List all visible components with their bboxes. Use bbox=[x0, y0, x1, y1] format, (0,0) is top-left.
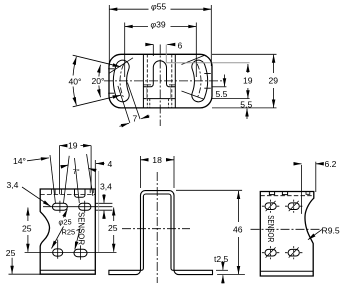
svg-text:SENSOR: SENSOR bbox=[266, 215, 276, 242]
7 dimension arrows bbox=[120, 123, 129, 126]
dia55 extension lines bbox=[109, 5, 211, 66]
7 deg right arrow bbox=[88, 168, 95, 170]
hat horizontal centerline bbox=[122, 228, 190, 230]
svg-text:14°: 14° bbox=[13, 156, 26, 166]
top step notch bbox=[90, 189, 93, 193]
top bend dashed line bbox=[40, 194, 95, 196]
3,4 right arrows bbox=[103, 194, 105, 203]
slant line L1 bbox=[50, 155, 55, 203]
svg-text:φ25: φ25 bbox=[59, 218, 72, 227]
svg-text:25: 25 bbox=[22, 224, 32, 234]
RV hole vertical dashed ticks bbox=[271, 200, 294, 260]
left slot top tick bbox=[109, 58, 133, 74]
4 dimension arrow bbox=[96, 163, 105, 165]
lower-right slot hole bbox=[74, 249, 87, 256]
lower-left hole bbox=[53, 249, 63, 256]
svg-text:20°: 20° bbox=[92, 76, 105, 86]
hat profile bbox=[109, 191, 213, 275]
phi25 leader down bbox=[52, 227, 64, 249]
cap top extension right bbox=[176, 189, 242, 191]
right arc slot bbox=[198, 67, 201, 95]
right top notch 1 bbox=[269, 192, 274, 195]
gray sensor vertical edge bbox=[165, 45, 167, 63]
RV lower-left hole bbox=[265, 249, 276, 256]
svg-text:SENSOR: SENSOR bbox=[77, 212, 87, 245]
slant line L2 bbox=[64, 156, 70, 203]
6 dimension bbox=[146, 45, 154, 57]
upper-right slot hole bbox=[79, 203, 91, 210]
svg-text:46: 46 bbox=[233, 225, 243, 235]
right plate outline bbox=[260, 192, 314, 277]
RV hole side ticks bbox=[262, 206, 303, 253]
right slot top tick bbox=[182, 56, 205, 65]
svg-text:18: 18 bbox=[152, 155, 162, 165]
sensor step line right bbox=[212, 86, 226, 88]
RV upper-left hole bbox=[265, 203, 276, 210]
foot bottom extension right bbox=[217, 274, 245, 276]
19 extension lines bbox=[59, 146, 91, 189]
top edge extension right bbox=[212, 53, 277, 55]
centre channel left hidden line bbox=[146, 54, 148, 98]
right plate top dashed bend line bbox=[260, 195, 312, 197]
hidden dashes below channel bbox=[147, 99, 172, 108]
dia39 extension lines bbox=[125, 23, 197, 78]
RV upper-right hole bbox=[288, 203, 299, 210]
svg-text:4: 4 bbox=[108, 159, 113, 169]
46 dimension line bbox=[238, 191, 240, 274]
18 dimension line bbox=[141, 159, 175, 161]
upper holes vertical ticks bbox=[60, 201, 85, 213]
svg-text:R9.5: R9.5 bbox=[322, 225, 340, 235]
centre channel left outer line bbox=[142, 54, 144, 108]
right top notch 2 bbox=[282, 192, 287, 195]
25 dim left outer bbox=[11, 258, 13, 274]
centre channel right outer line bbox=[174, 54, 176, 108]
top U notch bbox=[75, 189, 86, 197]
svg-text:19: 19 bbox=[68, 141, 78, 151]
RV hole diagonal ticks bbox=[266, 201, 299, 258]
svg-text:3,4: 3,4 bbox=[7, 180, 19, 190]
centre U tab bbox=[143, 61, 175, 87]
right top notch 3 bbox=[306, 192, 310, 195]
lower holes centerline bbox=[25, 251, 117, 253]
20 deg upper ray bbox=[73, 55, 121, 67]
svg-text:5.5: 5.5 bbox=[216, 89, 228, 99]
phi25 leader up bbox=[64, 209, 68, 217]
gray sensor hidden sides bbox=[147, 87, 171, 99]
25 dim left inner bbox=[27, 208, 29, 252]
right slot bottom tick bbox=[182, 91, 205, 99]
20 deg dimension arcs bbox=[99, 65, 101, 77]
bottom edge extension left bbox=[9, 273, 41, 275]
gray sensor flange line bbox=[166, 62, 249, 64]
14 deg leader bbox=[27, 158, 49, 161]
R25 leader bbox=[75, 229, 80, 250]
6.2 extension line A bbox=[301, 165, 303, 214]
svg-text:7: 7 bbox=[133, 114, 138, 124]
hat vertical centerline bbox=[156, 172, 158, 283]
slant line L4 bbox=[87, 154, 93, 196]
RV horizontal centerline bbox=[251, 228, 323, 230]
29 dimension line bbox=[273, 55, 275, 108]
upper-left slot hole bbox=[52, 203, 67, 210]
t2.5 upper arrow bbox=[222, 263, 224, 270]
t2.5 lower arrow bbox=[222, 275, 224, 283]
bottom edge extension right bbox=[212, 107, 277, 109]
R9.5 leader bbox=[308, 230, 322, 240]
centre channel right hidden line bbox=[171, 54, 173, 98]
upper hole edge extensions right bbox=[95, 203, 112, 210]
svg-text:29: 29 bbox=[269, 76, 279, 86]
step line 2 right bbox=[212, 98, 250, 100]
5.5 lower arrow bbox=[246, 109, 248, 120]
centre channel inner line bbox=[143, 98, 175, 100]
25 dim right bbox=[113, 208, 115, 252]
lower holes vertical ticks bbox=[58, 240, 81, 260]
bracket body top view bbox=[109, 54, 212, 108]
ray cross ticks bbox=[108, 69, 114, 93]
18 extension lines bbox=[141, 156, 175, 188]
svg-text:t2.5: t2.5 bbox=[214, 254, 229, 264]
foot top extension bbox=[216, 269, 228, 271]
20 deg lower ray bbox=[73, 95, 121, 107]
right slot dash-dot centre arc bbox=[197, 64, 201, 98]
svg-text:3,4: 3,4 bbox=[100, 182, 112, 192]
upper holes centerline bbox=[43, 206, 112, 208]
svg-text:19: 19 bbox=[243, 76, 253, 86]
7 deg left arrow bbox=[62, 165, 69, 167]
left arc slot bbox=[120, 67, 123, 95]
svg-text:25: 25 bbox=[108, 223, 118, 233]
svg-text:6: 6 bbox=[178, 40, 183, 50]
RV lower-right hole bbox=[288, 249, 299, 256]
svg-text:φ39: φ39 bbox=[151, 19, 166, 29]
5.5 upper arrow bbox=[224, 75, 226, 87]
7 slot width extension lines bbox=[118, 83, 140, 124]
svg-text:6.2: 6.2 bbox=[325, 159, 337, 169]
19 dimension (front) bbox=[59, 145, 91, 147]
slant line L3 bbox=[75, 158, 80, 203]
right slot outer edge ticks bbox=[204, 74, 211, 89]
right edge extension up bbox=[94, 160, 96, 189]
svg-text:25: 25 bbox=[6, 248, 16, 258]
vertical centerline bbox=[159, 45, 161, 127]
centre bend line upper bbox=[143, 84, 175, 86]
3,4 left leader bbox=[22, 187, 51, 206]
front plate outline bbox=[40, 189, 95, 274]
svg-text:7°: 7° bbox=[73, 167, 80, 176]
6.2 extension line B bbox=[315, 162, 317, 192]
6.2 dimension arrows bbox=[294, 163, 301, 165]
dia55 dimension line bbox=[109, 8, 211, 10]
right plate bottom bend line bbox=[260, 270, 313, 272]
svg-text:5.5: 5.5 bbox=[240, 100, 252, 110]
svg-text:40°: 40° bbox=[69, 77, 82, 87]
bottom bend line bbox=[40, 269, 95, 271]
sensor gray edge right bbox=[98, 171, 100, 252]
svg-text:φ55: φ55 bbox=[151, 2, 166, 12]
svg-text:R25: R25 bbox=[62, 228, 76, 237]
horizontal centerline bbox=[104, 80, 225, 82]
dia39 dimension line bbox=[125, 26, 197, 28]
19 dimension line bbox=[247, 64, 249, 98]
top notch ticks bbox=[52, 189, 62, 194]
40 deg dimension arc bbox=[73, 57, 76, 76]
left slot dash-dot centre arc bbox=[120, 64, 124, 98]
